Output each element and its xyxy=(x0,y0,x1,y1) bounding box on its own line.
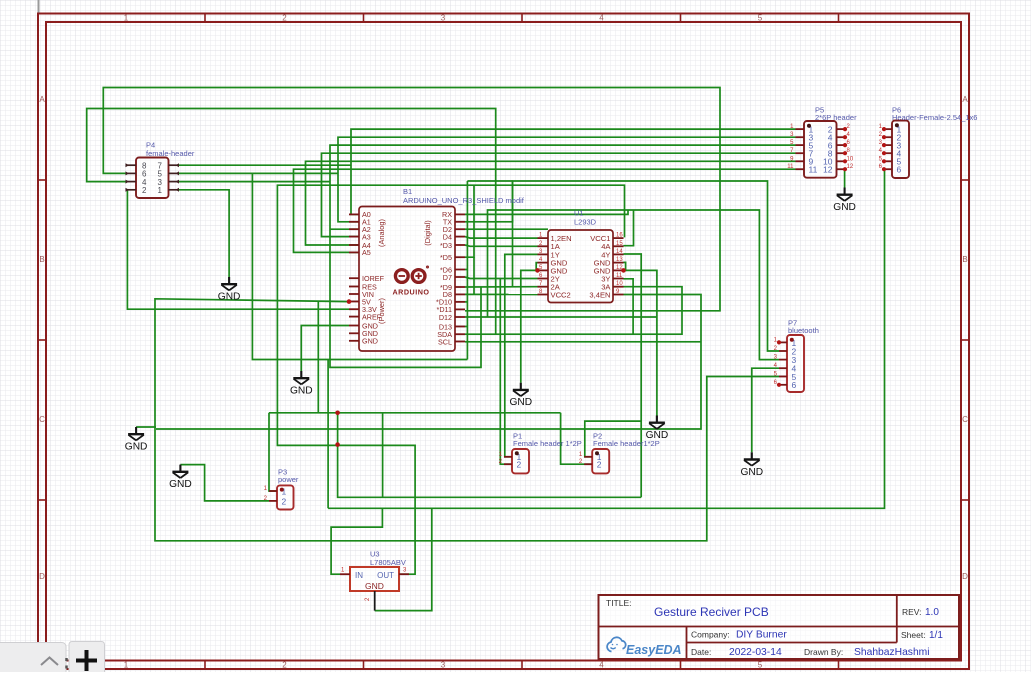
wire P4.2 to 3.3V xyxy=(127,190,349,309)
wire 3Y riser xyxy=(624,279,634,334)
wire D3 to 1A xyxy=(465,245,538,246)
svg-text:A: A xyxy=(962,95,968,104)
wire 5V net VCC1 U3.OUT xyxy=(277,185,624,574)
svg-text:GND: GND xyxy=(362,337,378,346)
wire P4.4 riser to SDA rail xyxy=(87,109,496,335)
svg-text:GND: GND xyxy=(833,202,856,213)
svg-text:GND: GND xyxy=(169,479,192,490)
svg-text:D12: D12 xyxy=(439,313,452,322)
svg-text:VCC2: VCC2 xyxy=(551,290,571,299)
svg-text:(Digital): (Digital) xyxy=(423,220,432,245)
svg-text:Drawn By:: Drawn By: xyxy=(804,647,843,657)
wire P5.9 - A4 xyxy=(306,161,796,245)
wire P5.12 to ground H xyxy=(844,169,846,187)
wire P5.11 - A5 xyxy=(294,169,796,252)
IC U1 L293D xyxy=(538,209,624,303)
wire P4.5 to A1 column xyxy=(177,172,338,174)
svg-text:D7: D7 xyxy=(443,273,452,282)
connector P3 power xyxy=(264,468,299,510)
svg-text:15: 15 xyxy=(616,241,623,247)
svg-text:female-header: female-header xyxy=(146,149,195,158)
svg-text:14: 14 xyxy=(616,249,623,255)
svg-text:ShahbazHashmi: ShahbazHashmi xyxy=(854,647,930,658)
wire U1.12 to ground F xyxy=(624,270,657,415)
svg-text:11: 11 xyxy=(809,165,818,175)
wire D9 to 2A xyxy=(465,286,538,288)
svg-text:SCL: SCL xyxy=(438,337,452,346)
svg-text:DIY Burner: DIY Burner xyxy=(736,630,787,641)
wire P4.1 to ground xyxy=(177,190,229,277)
svg-text:*D5: *D5 xyxy=(440,253,452,262)
wire P5.7 - A3 xyxy=(322,153,796,236)
svg-text:1/1: 1/1 xyxy=(929,630,943,641)
svg-text:Female header 1*2P: Female header 1*2P xyxy=(513,439,582,448)
wire P5.5 - A2 xyxy=(330,145,796,367)
svg-text:GND: GND xyxy=(125,442,148,453)
svg-text:OUT: OUT xyxy=(377,571,394,580)
connector P2 Female header1*2P xyxy=(579,432,660,474)
connector P5 2*6P header xyxy=(787,106,857,178)
svg-text:D: D xyxy=(962,572,968,581)
wire D12 to GND column xyxy=(465,316,657,318)
svg-text:bluetooth: bluetooth xyxy=(788,326,819,335)
junction rail412-337 xyxy=(335,411,340,416)
title block xyxy=(599,595,960,659)
wire ground C spur xyxy=(136,426,156,428)
svg-text:2: 2 xyxy=(282,14,287,23)
svg-text:B: B xyxy=(39,255,44,264)
svg-text:12: 12 xyxy=(847,164,854,170)
wire P4.6 to D11 top loop xyxy=(103,88,720,311)
svg-text:Gesture Reciver PCB: Gesture Reciver PCB xyxy=(654,605,769,619)
svg-text:L293D: L293D xyxy=(574,218,597,227)
svg-text:1: 1 xyxy=(158,186,163,195)
svg-text:A5: A5 xyxy=(362,248,371,257)
wire rail 412 xyxy=(269,412,561,414)
junction rail444-337 xyxy=(335,442,340,447)
svg-text:EasyEDA: EasyEDA xyxy=(626,643,682,657)
wire SCL to 3,4EN column xyxy=(465,341,701,343)
svg-text:2*6P header: 2*6P header xyxy=(815,113,857,122)
connector P7 bluetooth xyxy=(774,319,819,393)
svg-text:10: 10 xyxy=(616,281,623,287)
junction U1 pin5 xyxy=(535,268,540,273)
svg-text:Date:: Date: xyxy=(691,647,711,657)
wire rail 210 to P7.3 xyxy=(488,210,780,360)
wire bottom rail 497 xyxy=(338,413,642,498)
UI zoom-in button xyxy=(69,642,105,677)
svg-text:GND: GND xyxy=(365,581,384,591)
svg-text:16: 16 xyxy=(616,233,623,239)
svg-text:IN: IN xyxy=(355,571,363,580)
UI collapse button xyxy=(0,643,66,677)
svg-text:ARDUINO: ARDUINO xyxy=(392,288,429,297)
svg-text:2: 2 xyxy=(282,661,287,670)
svg-text:2: 2 xyxy=(597,460,602,470)
EasyEDA logo xyxy=(607,637,626,651)
wire D7 to 2Y xyxy=(465,277,538,279)
wire P7.4 to ground G xyxy=(752,368,779,452)
svg-text:2022-03-14: 2022-03-14 xyxy=(729,647,782,658)
svg-text:L7805ABV: L7805ABV xyxy=(370,558,406,567)
svg-text:(Power): (Power) xyxy=(377,298,386,324)
wire D10 stub link xyxy=(465,301,467,303)
svg-text:3: 3 xyxy=(441,14,446,23)
ground GND below P7 xyxy=(744,452,760,465)
wire 2Y to P1.2 xyxy=(500,279,512,465)
wire rail 412 left riser xyxy=(317,302,319,413)
wire D5 riser xyxy=(465,185,474,257)
connector P6 Header-Female-2.54_1x6 xyxy=(879,106,978,179)
svg-text:Company:: Company: xyxy=(691,630,730,640)
junction U1 pin12 xyxy=(621,268,626,273)
wire rail to P6 riser xyxy=(327,360,329,509)
ground GND near P4 xyxy=(221,277,237,290)
svg-text:3: 3 xyxy=(441,661,446,670)
wire P4.3 to A2 column xyxy=(177,181,330,183)
svg-text:5: 5 xyxy=(758,661,763,670)
svg-text:GND: GND xyxy=(646,430,669,441)
connector P4 female-header xyxy=(126,141,195,199)
svg-text:6: 6 xyxy=(897,165,902,175)
Arduino logo xyxy=(395,266,428,282)
svg-text:*D3: *D3 xyxy=(440,241,452,250)
svg-text:3,4EN: 3,4EN xyxy=(589,290,610,299)
wire P4.5 branch rail xyxy=(252,173,467,359)
svg-text:U1: U1 xyxy=(574,209,584,218)
svg-text:(Analog): (Analog) xyxy=(377,219,386,247)
svg-text:12: 12 xyxy=(823,165,833,175)
wire SDA rail to 3A xyxy=(465,287,682,335)
svg-text:REV:: REV: xyxy=(902,607,922,617)
wire D6 stub link xyxy=(465,269,467,271)
svg-text:2: 2 xyxy=(282,496,287,506)
svg-text:A: A xyxy=(39,95,45,104)
connector P1 Female header 1*2P xyxy=(499,432,582,474)
wire rail 508 to P6.6 xyxy=(328,169,884,508)
svg-text:D: D xyxy=(39,572,45,581)
ground GND below P5 xyxy=(837,188,853,201)
ground GND below Arduino xyxy=(293,371,309,384)
wire TX rail west stub xyxy=(467,180,512,182)
wire P5.1 - A0 xyxy=(351,129,796,214)
canvas top-left gray ruler mark xyxy=(38,0,40,14)
svg-text:1.0: 1.0 xyxy=(925,607,939,618)
wire D13 stub link xyxy=(465,326,467,328)
ground GND near P3 xyxy=(172,465,188,478)
wire TX column lower segment xyxy=(512,181,514,287)
wire A2 stub link xyxy=(330,228,359,230)
wire D2 east xyxy=(465,228,548,230)
svg-text:B1: B1 xyxy=(403,187,412,196)
wire 1Y to P1.1 xyxy=(505,254,538,456)
svg-text:11: 11 xyxy=(616,273,623,279)
svg-text:GND: GND xyxy=(290,386,313,397)
wire RX riser xyxy=(465,210,628,214)
regulator U3 L7805ABV xyxy=(340,550,409,611)
svg-text:B: B xyxy=(962,255,967,264)
wire U1.5 to ground E xyxy=(521,270,538,382)
ground GND row C xyxy=(128,427,144,440)
svg-text:6: 6 xyxy=(792,380,797,390)
svg-text:TITLE:: TITLE: xyxy=(606,598,632,608)
wire U1.9 3,4EN loop xyxy=(156,295,701,430)
svg-text:4: 4 xyxy=(599,14,604,23)
svg-text:1: 1 xyxy=(124,14,129,23)
wire rail 412 to P2.2 xyxy=(561,413,592,464)
junction 5V stub xyxy=(347,299,352,304)
wire 4A riser xyxy=(624,210,634,246)
wire Arduino GND to ground B1 xyxy=(301,326,349,372)
svg-text:2: 2 xyxy=(142,186,147,195)
wire ground D to P3.2 xyxy=(180,465,269,501)
frame column ticks xyxy=(204,14,206,23)
ground GND below U1 left xyxy=(513,383,529,396)
svg-text:GND: GND xyxy=(740,467,763,478)
wire D5 riser south xyxy=(473,257,475,294)
wire D6 D13 riser xyxy=(466,181,468,360)
wire P4.7 to A0 column xyxy=(177,164,351,166)
wire TX to P7.2 xyxy=(465,181,779,351)
svg-text:13: 13 xyxy=(616,257,623,263)
wire D8 to VCC2 xyxy=(465,293,538,295)
svg-text:C: C xyxy=(39,415,45,424)
svg-text:1: 1 xyxy=(124,661,129,670)
svg-text:GND: GND xyxy=(218,292,241,303)
svg-text:ARDUINO_UNO_R3_SHIELD modif: ARDUINO_UNO_R3_SHIELD modif xyxy=(403,196,525,205)
wire P5.3 - A1 xyxy=(338,137,796,222)
wire U3.IN riser xyxy=(331,508,382,574)
svg-text:2: 2 xyxy=(517,460,522,470)
wire U3.GND to rail xyxy=(375,508,432,610)
frame row ticks xyxy=(38,179,46,181)
wire rail 412 to P3.1 xyxy=(269,413,277,491)
ground GND below U1 right xyxy=(649,416,665,429)
wire 4Y to P2.1 and bottom rail xyxy=(624,254,642,497)
svg-text:10: 10 xyxy=(847,156,854,162)
svg-text:GND: GND xyxy=(509,397,532,408)
svg-text:power: power xyxy=(278,475,299,484)
svg-text:Header-Female-2.54_1x6: Header-Female-2.54_1x6 xyxy=(892,113,977,122)
svg-text:11: 11 xyxy=(787,164,794,170)
wire riser 382 xyxy=(382,413,384,498)
svg-text:4: 4 xyxy=(599,661,604,670)
wire U1 GND bracket 13-12 xyxy=(624,262,626,270)
module B1 ARDUINO_UNO_R3_SHIELD xyxy=(349,187,525,351)
wire D4 to 1,2EN xyxy=(465,237,538,239)
wire 5V rail to U3 input loop xyxy=(155,299,779,541)
svg-text:C: C xyxy=(962,415,968,424)
svg-text:5: 5 xyxy=(758,14,763,23)
svg-text:Sheet:: Sheet: xyxy=(901,630,926,640)
wire 4Y branch to P2.1 xyxy=(585,421,641,457)
wire U1 GND bracket 4-5 xyxy=(536,263,537,271)
